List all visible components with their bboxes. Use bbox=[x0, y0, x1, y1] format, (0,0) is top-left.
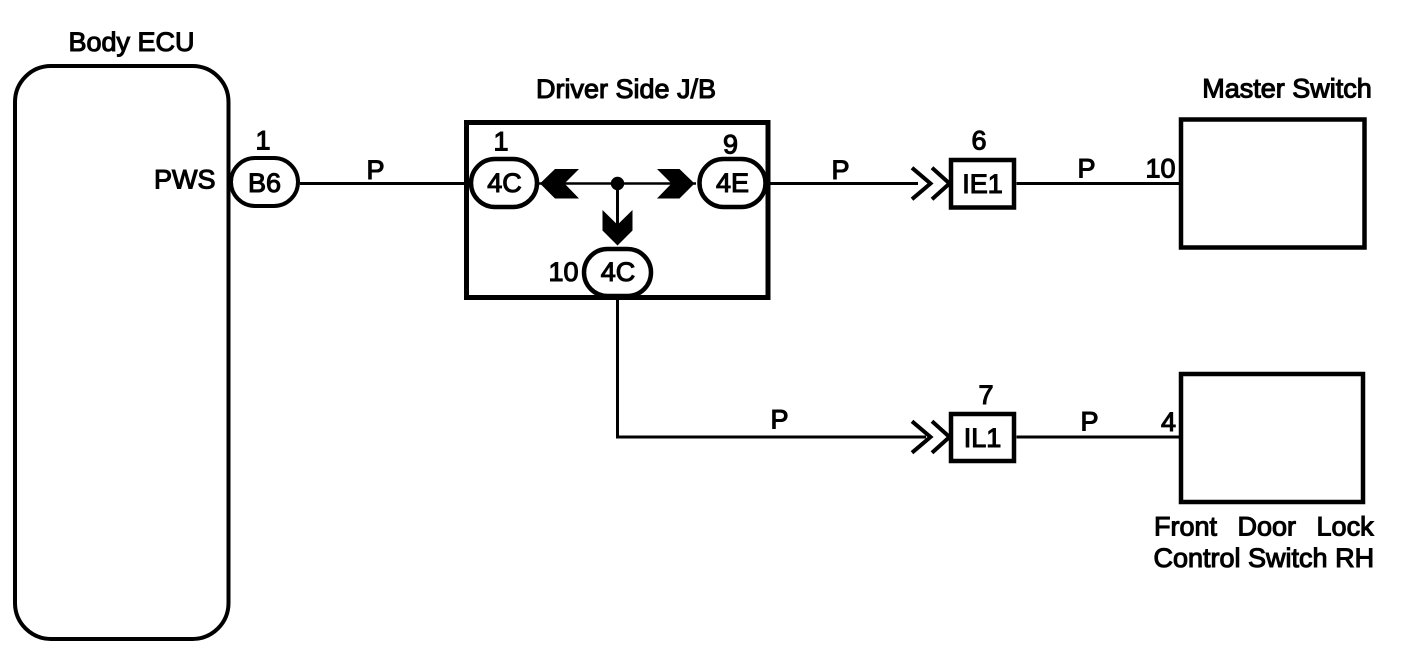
wire 4C bottom down and right to IL1 bbox=[618, 296, 927, 437]
svg-text:Driver Side J/B: Driver Side J/B bbox=[536, 74, 716, 104]
svg-text:4C: 4C bbox=[487, 168, 522, 198]
svg-text:PWS: PWS bbox=[154, 165, 216, 195]
svg-text:IE1: IE1 bbox=[962, 169, 1003, 199]
internal wire 4C to 4E bbox=[539, 182, 696, 185]
svg-text:P: P bbox=[366, 155, 384, 185]
svg-text:Front Door Lock: Front Door Lock bbox=[1154, 512, 1374, 542]
svg-text:10: 10 bbox=[548, 257, 578, 287]
svg-text:Control Switch RH: Control Switch RH bbox=[1154, 543, 1375, 573]
svg-text:9: 9 bbox=[723, 130, 738, 160]
internal wire down from junction bbox=[616, 184, 619, 229]
connector IE1 bbox=[951, 160, 1014, 208]
svg-text:4: 4 bbox=[1161, 407, 1176, 437]
svg-text:Body ECU: Body ECU bbox=[68, 27, 194, 57]
svg-text:Master Switch: Master Switch bbox=[1202, 74, 1372, 104]
svg-text:7: 7 bbox=[978, 380, 993, 410]
wire IL1 to Front Door Lock Control Switch RH bbox=[1017, 436, 1182, 439]
junction block Driver Side J/B box bbox=[467, 123, 769, 298]
svg-text:6: 6 bbox=[971, 126, 986, 156]
Body ECU box bbox=[15, 66, 229, 639]
svg-text:1: 1 bbox=[255, 126, 270, 156]
splice chevrons to IE1 bbox=[912, 168, 931, 199]
connector IL1 bbox=[951, 414, 1014, 461]
flow arrow left bbox=[540, 169, 579, 199]
connector 4C bottom bbox=[584, 249, 651, 296]
wire B6 to J/B bbox=[300, 182, 468, 185]
svg-text:P: P bbox=[831, 155, 849, 185]
svg-text:IL1: IL1 bbox=[964, 423, 1002, 453]
svg-text:10: 10 bbox=[1145, 154, 1175, 184]
svg-text:P: P bbox=[1080, 407, 1098, 437]
junction dot bbox=[611, 177, 624, 190]
svg-text:P: P bbox=[770, 405, 788, 435]
wire IE1 to Master Switch bbox=[1017, 182, 1182, 185]
connector 4E bbox=[700, 159, 766, 207]
svg-text:B6: B6 bbox=[248, 168, 281, 198]
Master Switch box bbox=[1181, 120, 1365, 248]
svg-text:4E: 4E bbox=[716, 168, 749, 198]
splice chevrons to IL1 bbox=[912, 421, 931, 452]
flow arrow right bbox=[657, 169, 695, 199]
svg-text:4C: 4C bbox=[601, 257, 636, 287]
connector 4C top bbox=[471, 159, 537, 207]
connector B6 bbox=[231, 158, 298, 206]
svg-text:P: P bbox=[1077, 154, 1095, 184]
flow arrow down bbox=[603, 210, 633, 246]
svg-text:1: 1 bbox=[493, 127, 508, 157]
Front Door Lock Control Switch RH box bbox=[1181, 374, 1363, 502]
wire 4E to IE1 bbox=[770, 182, 918, 185]
